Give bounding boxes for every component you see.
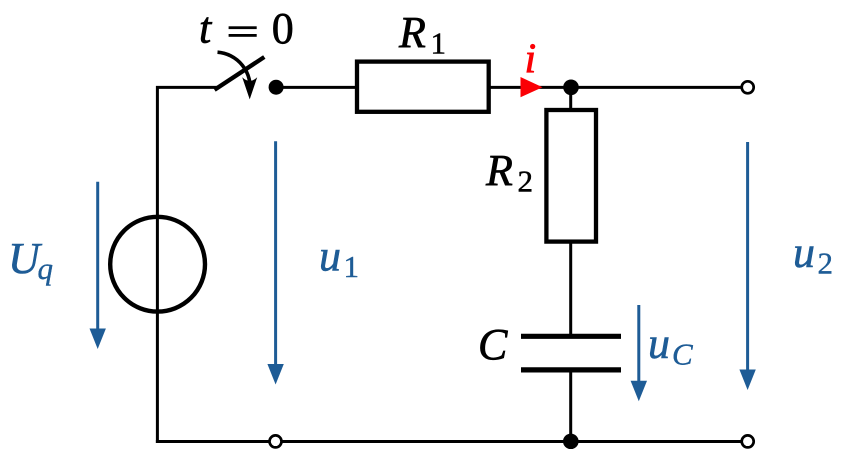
voltage arrow u1 — [274, 141, 277, 366]
switch S blade — [215, 57, 265, 90]
capacitor C top plate — [521, 334, 621, 339]
node bottom junction — [563, 434, 579, 449]
bottom wire — [156, 440, 741, 443]
svg-text:C: C — [672, 337, 693, 372]
svg-text:u: u — [319, 232, 341, 281]
svg-text:u: u — [793, 228, 815, 277]
wire node to R2 — [569, 87, 572, 111]
wire capacitor to bottom node — [569, 370, 572, 442]
switch closing arc — [218, 52, 251, 92]
current arrow i — [521, 77, 543, 97]
node A top junction — [563, 80, 579, 96]
wire left vertical branch — [156, 86, 159, 443]
svg-text:R: R — [398, 8, 426, 57]
node switch contact — [269, 80, 284, 95]
wire R2 to capacitor — [569, 242, 572, 336]
wire R1 to top-right terminal — [489, 86, 741, 89]
terminal top right — [742, 81, 754, 93]
resistor R2 — [546, 110, 596, 242]
svg-text:i: i — [525, 37, 537, 83]
voltage arrow u2 — [746, 142, 749, 371]
switch arc arrowhead — [242, 77, 257, 99]
resistor R1 — [357, 62, 489, 112]
svg-text:2: 2 — [518, 164, 534, 199]
svg-text:R: R — [485, 146, 513, 195]
svg-text:2: 2 — [818, 246, 834, 281]
svg-text:C: C — [478, 320, 508, 369]
wire switch contact to R1 — [276, 86, 357, 89]
voltage arrow U_q — [96, 182, 99, 331]
svg-text:q: q — [38, 251, 54, 286]
voltage arrow uC — [637, 305, 640, 382]
svg-text:0: 0 — [272, 4, 294, 53]
wire top-left horizontal to switch hinge — [156, 86, 217, 89]
voltage source U_q — [110, 217, 205, 312]
svg-text:1: 1 — [344, 249, 360, 284]
capacitor C bottom plate — [521, 367, 621, 372]
terminal bottom middle — [270, 435, 282, 447]
svg-text:1: 1 — [431, 26, 447, 61]
svg-text:t: t — [199, 4, 213, 53]
terminal bottom right — [742, 435, 754, 447]
svg-text:u: u — [648, 319, 670, 368]
